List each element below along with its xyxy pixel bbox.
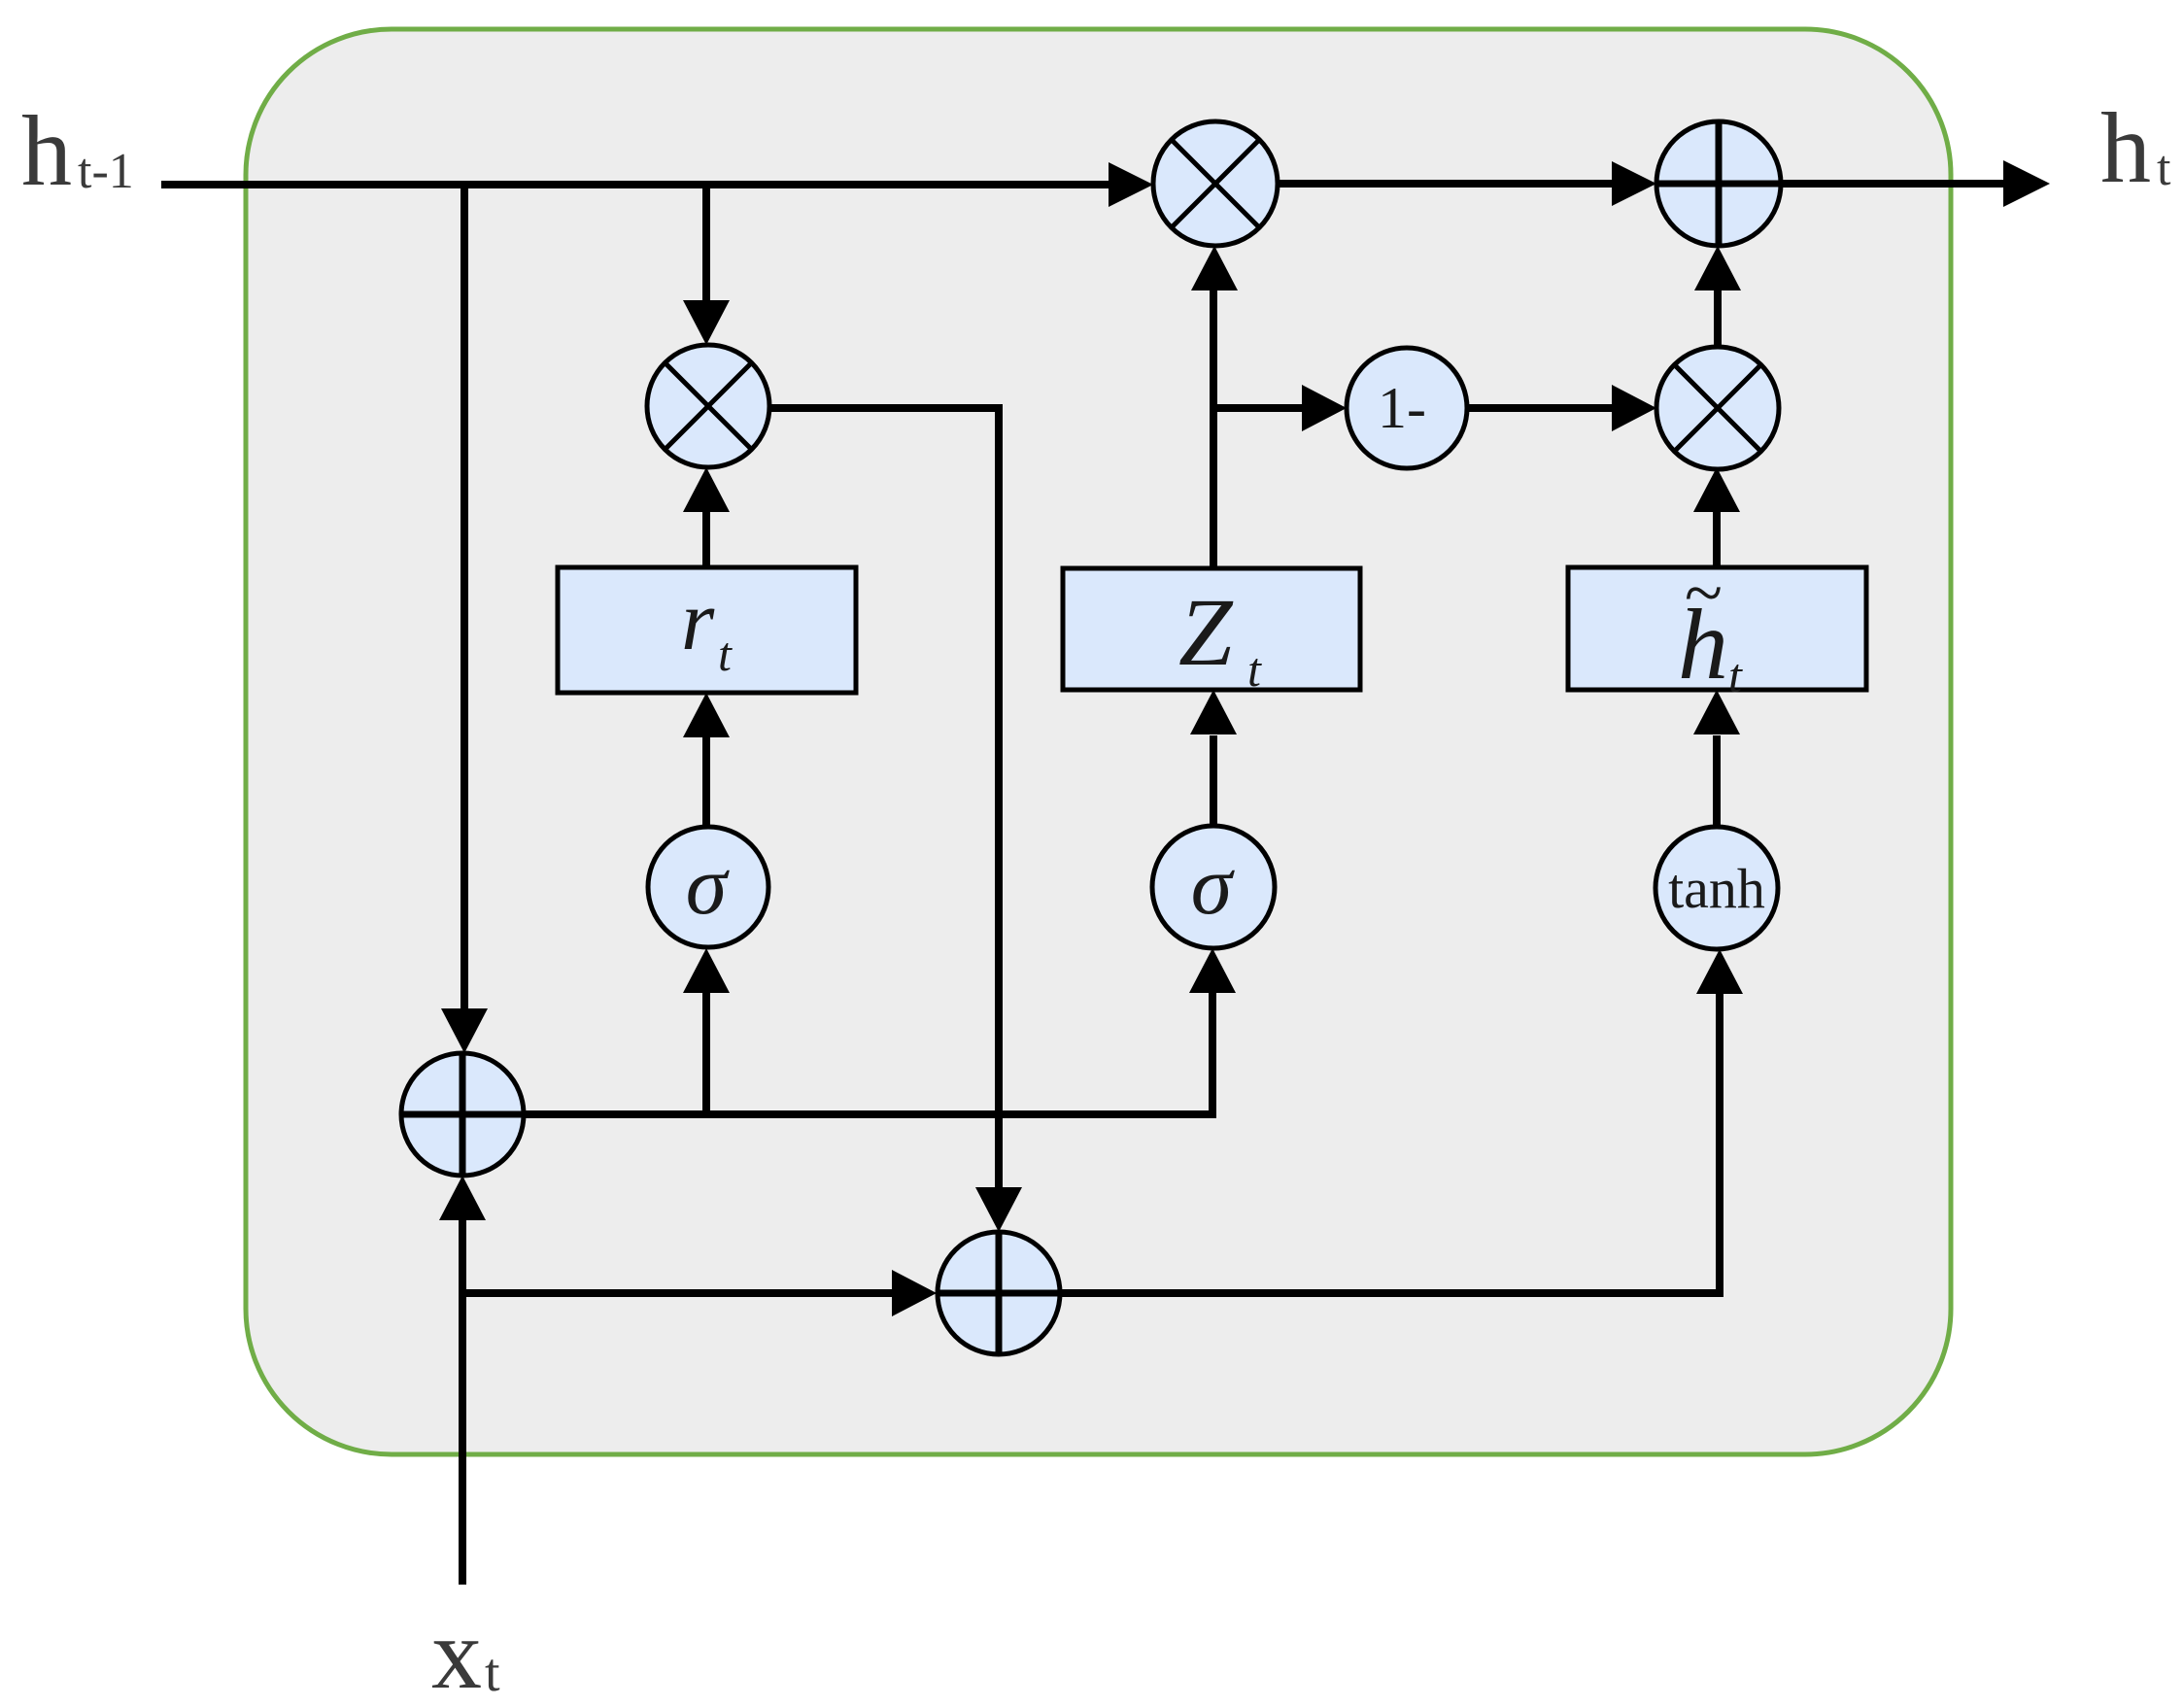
wire: h~ rect top to right multiply [1713,509,1721,567]
wire: right multiply up to top add [1714,289,1722,346]
GRU cell body (rounded green box) [246,29,1951,1454]
svg-text:tanh: tanh [1668,857,1765,920]
svg-text:t: t [485,1643,500,1703]
arrowhead into left add top [441,1008,488,1053]
svg-text:~: ~ [1684,554,1722,632]
svg-text:1-: 1- [1378,376,1426,440]
wire: riser to sigma1 [702,991,710,1114]
wire: r_t rect top to reset multiply [702,509,710,567]
add node (bottom, r*h + x) [938,1232,1060,1354]
svg-text:h: h [21,95,72,207]
tanh node [1655,827,1778,949]
wire: Z_t rect top to top multiply [1210,289,1217,568]
arrowhead into top multiply bottom [1191,246,1238,290]
svg-text:σ: σ [1191,838,1236,932]
arrowhead into left add bottom [439,1176,486,1220]
svg-text:x: x [431,1598,482,1707]
wire: bottom add output right then up to tanh [1060,992,1720,1293]
arrowhead h_t output [2003,160,2050,207]
arrowhead into sigma1 bottom [683,948,730,993]
wire: concat row from left add to z column [524,991,1212,1114]
wire: 1- circle to right multiply [1467,404,1614,412]
wire: x_t branch right to bottom add [462,1289,895,1297]
sigma node (update gate sigma) [1152,826,1275,948]
svg-text:Z: Z [1178,578,1234,686]
svg-text:h: h [2100,92,2151,204]
arrowhead into right multiply [1612,385,1656,431]
arrowhead into r_t bottom [683,693,730,737]
wire: reset multiply output right then down to bottom add [768,408,999,1190]
gate box Z_t [1063,568,1360,697]
arrowhead into Z_t bottom [1190,690,1237,734]
svg-text:t: t [1247,642,1262,697]
add node (top right, output sum) [1656,121,1781,246]
sigma node (reset gate sigma) [648,827,768,947]
arrowhead into bottom add top [975,1187,1022,1232]
wire: sigma2 to Z_t rect [1210,735,1217,827]
label h_t [2100,92,2171,204]
label h_{t-1} [21,95,134,207]
arrowhead into sigma2 bottom [1189,948,1236,993]
multiply node (top, z_t * h_{t-1}) [1153,121,1278,246]
arrowhead into right multiply bottom [1693,467,1740,512]
wire: sigma1 to r_t rect [702,735,710,827]
arrowhead into top add bottom [1694,246,1741,290]
label x_t [431,1598,500,1707]
svg-text:t-1: t-1 [78,144,134,199]
arrowhead into top multiply [1109,162,1153,207]
wire: top multiply to top add [1276,180,1615,188]
arrowhead into reset multiply bottom [683,467,730,512]
add node (left, h_{t-1}+x_t) [401,1053,524,1176]
multiply node (reset gate) [647,345,769,467]
arrowhead into reset multiply top [683,300,730,345]
arrowhead into top add [1612,161,1656,206]
svg-text:t: t [718,627,733,681]
svg-text:r: r [681,574,715,668]
gate box h~_t [1568,554,1866,702]
gate box r_t [558,567,856,693]
wire: top add output to h_t [1779,180,2007,188]
svg-text:t: t [1728,648,1743,702]
arrowhead into bottom add left [892,1270,937,1316]
arrowhead into tanh bottom [1696,949,1743,994]
1- node [1347,348,1467,468]
arrowhead into 1- circle [1302,385,1347,431]
svg-text:σ: σ [686,838,731,932]
wire: z branch to 1- circle [1213,404,1305,412]
wire: tanh to h~ rect [1713,735,1721,827]
wire: branch down to reset multiply [702,182,710,303]
wire: h_{t-1} vertical branch to left add [461,182,468,1011]
wire: x_t input vertical [459,1218,466,1585]
wire: h_{t-1} main top line [161,181,1110,188]
multiply node (right, (1-z)*h~) [1656,347,1779,469]
arrowhead into h~ rect bottom [1693,690,1740,734]
svg-text:t: t [2157,141,2171,196]
